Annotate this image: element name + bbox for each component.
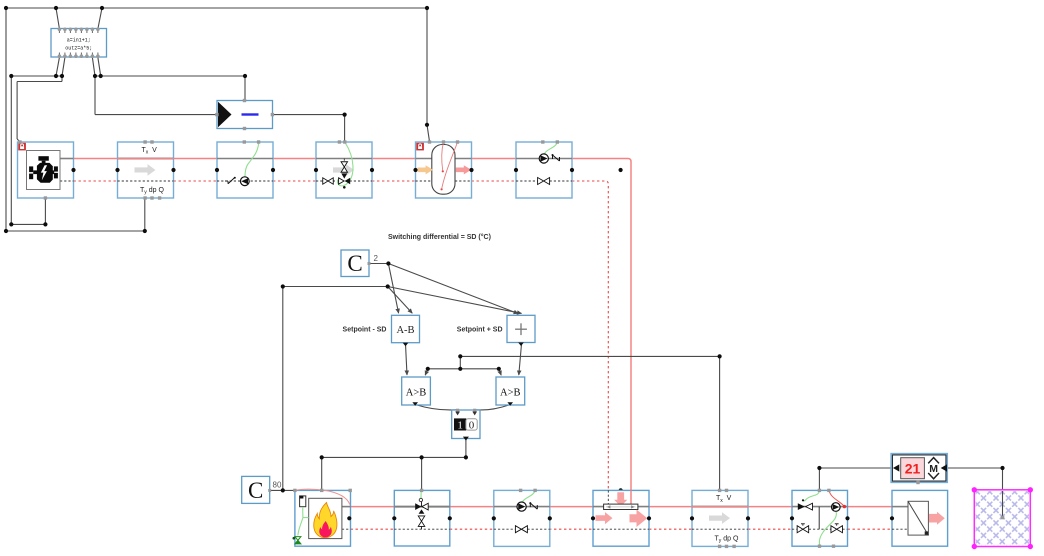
block plus adder bbox=[507, 315, 535, 342]
svg-text:1: 1 bbox=[457, 419, 463, 431]
node junction (6,231) bbox=[4, 229, 8, 233]
node junction (11.3,224.4) bbox=[9, 222, 13, 226]
node junction (56,76) bbox=[54, 74, 58, 78]
wire to valve2 top bbox=[421, 457, 423, 491]
node junction (62,76) bbox=[60, 74, 64, 78]
node junction (460.3,356.4) bbox=[458, 354, 462, 358]
node junction (100.7,76) bbox=[99, 74, 103, 78]
wire supply red line bottom row bbox=[351, 506, 395, 508]
wire ctrl out7/8 bus bbox=[95, 75, 245, 77]
wire top bus bbox=[6, 7, 427, 9]
node junction (719.6,356.4) bbox=[718, 354, 722, 358]
wire plus to A>B2 bbox=[519, 344, 522, 375]
svg-text:out2=a*5;: out2=a*5; bbox=[65, 46, 92, 52]
svg-text:A>B: A>B bbox=[500, 388, 521, 399]
node junction (427.8,368.8) bbox=[426, 367, 430, 371]
svg-text:21: 21 bbox=[905, 461, 921, 477]
svg-text:Setpoint - SD: Setpoint - SD bbox=[343, 327, 387, 334]
wire return red dotted row1 bbox=[74, 180, 118, 182]
wire return red dotted to bottom bbox=[572, 181, 608, 490]
svg-text:A>B: A>B bbox=[406, 388, 427, 399]
CHP engine block bbox=[18, 142, 74, 198]
node junction (1002.5,468) bbox=[1000, 466, 1004, 470]
wire A>B2 to switch bbox=[476, 405, 510, 410]
wire A>B1 to switch bbox=[415, 405, 456, 410]
controller U1 (programmable) bbox=[51, 29, 107, 58]
wire ctrl top in1 bbox=[56, 8, 59, 29]
node junction (421.6,457.4) bbox=[420, 455, 424, 459]
mixing valve block valve1 bbox=[316, 142, 372, 198]
wire to flipflop input bbox=[94, 76, 96, 115]
node junction (45.4,224.4) bbox=[43, 222, 47, 226]
wire C80 out bbox=[270, 489, 295, 491]
storage tank block bbox=[416, 142, 472, 198]
pump block pump1 bbox=[217, 142, 273, 198]
node junction (387.7,286.5) bbox=[386, 284, 390, 288]
block switch 1-0 bbox=[452, 410, 480, 439]
node junction (11.3,76) bbox=[9, 74, 13, 78]
block A>B comparator 1 bbox=[402, 377, 431, 405]
pipe block pipe1 bbox=[118, 142, 174, 198]
wire T to A>B2 bbox=[499, 369, 501, 375]
wire to boiler top bbox=[321, 457, 323, 490]
heat exchanger block bbox=[892, 490, 948, 546]
mixing circuit block bbox=[792, 490, 848, 546]
svg-text:Switching differential = SD (: Switching differential = SD (°C) bbox=[388, 233, 491, 241]
wire T to A>B1 bbox=[425, 369, 428, 375]
node junction (102,8) bbox=[100, 6, 104, 10]
wire red over pipe1 bbox=[118, 158, 174, 160]
constant block C2 bbox=[341, 250, 369, 277]
wire SD to plus bbox=[388, 264, 518, 314]
node junction (245,76) bbox=[243, 74, 247, 78]
wire thermostat to room bbox=[947, 467, 1002, 469]
wire thermostat into room overlay bbox=[1002, 491, 1004, 518]
wire flipflop out to valve bbox=[272, 114, 344, 116]
node junction (95,76) bbox=[93, 74, 97, 78]
mixing valve block valve2 bbox=[394, 490, 450, 546]
wire to pipe1 bottom bbox=[6, 230, 145, 232]
wire switch out bbox=[465, 438, 467, 458]
wire setpoint to plus bbox=[388, 287, 522, 314]
svg-text:Setpoint + SD: Setpoint + SD bbox=[457, 327, 503, 334]
wire T vertical from pipe2 bbox=[719, 356, 721, 490]
node junction (465.9,457.4) bbox=[464, 455, 468, 459]
node junction (620.6,170) bbox=[619, 168, 623, 172]
svg-text:80: 80 bbox=[273, 481, 282, 490]
thermostat block bbox=[891, 454, 947, 483]
wire ctrl out2 to CHP top bbox=[61, 76, 63, 82]
svg-text:a=in1+1;: a=in1+1; bbox=[67, 38, 91, 44]
block A-B bbox=[392, 315, 420, 342]
node junction (282.8,286.5) bbox=[281, 284, 285, 288]
wire switch bus bbox=[322, 456, 466, 458]
boiler block bbox=[295, 490, 351, 546]
wire ctrl out1 bus bbox=[11, 75, 62, 77]
node junction (388.4,263.5) bbox=[386, 261, 390, 265]
block A>B comparator 2 bbox=[496, 377, 525, 405]
wire setpoint to A-B bbox=[388, 287, 413, 314]
wire C2 out bbox=[369, 263, 388, 265]
svg-text:A-B: A-B bbox=[396, 325, 414, 336]
node junction (498.8,368.8) bbox=[497, 367, 501, 371]
wire to flipflop top bbox=[244, 76, 246, 101]
svg-text:C: C bbox=[347, 251, 362, 276]
wire supply red line row1 bbox=[60, 159, 631, 505]
block relay/flipflop bbox=[217, 101, 273, 129]
wire setpoint vertical bbox=[282, 287, 284, 491]
svg-text:M: M bbox=[929, 463, 938, 475]
node junction (56,8) bbox=[54, 6, 58, 10]
pump block pump3 bbox=[494, 490, 550, 546]
node junction (460.3,368.8) bbox=[458, 367, 462, 371]
wire setpoint bus bbox=[283, 286, 388, 288]
node junction (344.6,114.6) bbox=[343, 113, 347, 117]
wire left vertical 2 bbox=[10, 76, 12, 224]
node junction (6,8) bbox=[4, 6, 8, 10]
node junction (427,8) bbox=[425, 6, 429, 10]
node junction (620.7,490.4) bbox=[619, 488, 623, 492]
wire Tmeasure bus bbox=[460, 355, 719, 357]
wire top bus to tank bbox=[426, 8, 428, 125]
wire red into heat sink bbox=[630, 490, 632, 504]
node junction (427,124.8) bbox=[425, 123, 429, 127]
svg-text:2: 2 bbox=[374, 254, 379, 263]
svg-text:C: C bbox=[248, 478, 263, 503]
wire A-B to A>B1 bbox=[406, 344, 408, 375]
node junction (819.4,468) bbox=[817, 466, 821, 470]
node junction (321.7,457.4) bbox=[320, 455, 324, 459]
svg-text:0: 0 bbox=[469, 419, 475, 431]
node junction (282.8,490.4) bbox=[281, 488, 285, 492]
pipe block pipe2 bbox=[692, 490, 748, 546]
constant block C80 bbox=[242, 476, 270, 503]
wire red over pipe2 bbox=[692, 506, 748, 508]
wire return red dotted bottom row bbox=[351, 528, 395, 530]
wire mix to thermostat bbox=[818, 468, 820, 490]
wire left vertical 1 bbox=[5, 8, 7, 231]
wire ctrl top in8 bbox=[98, 8, 102, 29]
wire SD to A-B bbox=[388, 264, 398, 314]
node junction (144.8,231) bbox=[143, 229, 147, 233]
heat sink block bbox=[593, 490, 649, 546]
wire to CHP bottom bbox=[11, 223, 45, 225]
pump block pump2 bbox=[516, 142, 572, 198]
room / building block bbox=[974, 490, 1030, 547]
